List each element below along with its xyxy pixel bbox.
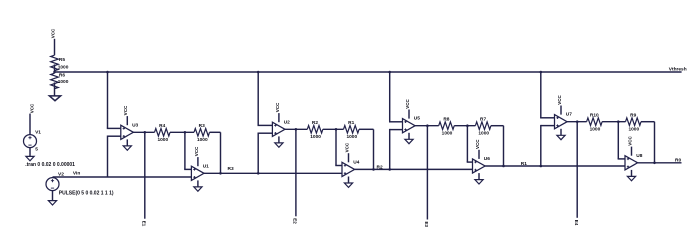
comparator U8 <box>625 136 643 181</box>
wire R5 to R6 <box>54 64 56 73</box>
comparator U6 <box>473 139 491 184</box>
wire <box>359 128 374 130</box>
svg-text:R9: R9 <box>630 113 636 119</box>
svg-text:VCC: VCC <box>557 94 562 104</box>
svg-text:U6: U6 <box>484 156 490 162</box>
stage 4 <box>540 71 543 74</box>
svg-text:E2: E2 <box>293 218 298 224</box>
svg-text:U4: U4 <box>353 159 359 165</box>
svg-text:R5: R5 <box>59 57 65 63</box>
wire to U8 +input <box>617 122 619 159</box>
svg-text:1000: 1000 <box>58 79 69 85</box>
wire U5 output <box>415 125 439 127</box>
stage 3 <box>388 71 391 74</box>
wire output net R2 <box>355 168 473 170</box>
svg-text:VCC: VCC <box>627 136 632 146</box>
node Vthresh junction <box>53 71 56 74</box>
svg-text:1000: 1000 <box>58 65 69 71</box>
svg-text:1000: 1000 <box>628 126 639 132</box>
svg-text:R3: R3 <box>228 166 234 172</box>
wire stub node E1 <box>144 132 146 218</box>
svg-text:1000: 1000 <box>197 137 208 143</box>
svg-text:U1: U1 <box>203 163 209 169</box>
wire to U4 +input <box>335 129 337 165</box>
svg-text:R1: R1 <box>521 161 527 167</box>
wire <box>170 131 194 133</box>
resistor R7 <box>475 122 491 130</box>
wire bus drop stage 3 <box>389 72 391 122</box>
comparator U7 <box>555 94 573 139</box>
wire <box>491 125 504 127</box>
svg-text:Vin: Vin <box>73 171 80 177</box>
wire output net R0 <box>638 162 682 164</box>
wire <box>323 128 344 130</box>
wire feedback R1 <box>373 129 375 169</box>
svg-text:VCC: VCC <box>275 102 280 112</box>
wire feedback R7 <box>503 126 505 166</box>
wire <box>641 121 655 123</box>
wire to U1 +input <box>184 132 186 169</box>
comparator U4 <box>342 142 360 187</box>
wire Vin <box>52 176 54 179</box>
svg-text:Vthresh: Vthresh <box>669 66 687 72</box>
wire U2 output <box>285 128 307 130</box>
wire stub node E3 <box>426 126 428 220</box>
ground (V1) <box>26 156 34 160</box>
svg-text:1000: 1000 <box>478 130 489 136</box>
svg-text:U7: U7 <box>566 112 572 118</box>
resistor R9 <box>626 118 641 126</box>
svg-text:VCC: VCC <box>194 146 199 156</box>
svg-text:R1: R1 <box>348 120 354 126</box>
svg-text:PULSE(0 5 0 0.02 1 1 1): PULSE(0 5 0 0.02 1 1 1) <box>59 190 114 196</box>
resistor R1 <box>344 126 360 134</box>
wire R6 to ground <box>54 82 56 95</box>
resistor R10 <box>587 118 602 126</box>
wire stub node E2 <box>295 129 297 216</box>
wire output net R1 <box>485 165 625 167</box>
svg-text:1000: 1000 <box>442 130 453 136</box>
wire U7 -input <box>541 125 555 127</box>
wire V2 to ground <box>52 191 54 201</box>
resistor R2 <box>307 126 323 134</box>
svg-text:E3: E3 <box>424 222 429 228</box>
resistor R4 <box>155 129 171 137</box>
svg-text:R6: R6 <box>59 72 65 78</box>
svg-text:R2: R2 <box>377 164 383 170</box>
wire U2 -input <box>258 132 272 134</box>
wire U5 -input <box>390 129 403 131</box>
wire U3 -input <box>108 135 121 137</box>
svg-text:U8: U8 <box>636 153 642 159</box>
comparator U2 <box>272 102 290 147</box>
svg-text:U3: U3 <box>132 122 138 128</box>
svg-text:VCC: VCC <box>50 28 55 38</box>
resistor R8 <box>439 122 455 130</box>
wire VCC to V1 <box>29 114 31 135</box>
svg-text:E1: E1 <box>141 221 146 227</box>
svg-text:VCC: VCC <box>344 142 349 152</box>
stage 2 <box>257 71 260 74</box>
svg-text:E4: E4 <box>574 220 579 226</box>
wire stub node E4 <box>576 122 578 218</box>
svg-text:R7: R7 <box>480 117 486 123</box>
ground (divider) <box>49 96 60 101</box>
svg-text:VCC: VCC <box>123 105 128 115</box>
wire bus drop stage 2 <box>257 72 259 125</box>
svg-text:VCC: VCC <box>405 98 410 108</box>
stage 1 <box>106 71 109 74</box>
svg-text:1000: 1000 <box>590 126 601 132</box>
wire feedback R3 <box>220 132 222 173</box>
wire U3 output <box>133 131 154 133</box>
svg-text:1000: 1000 <box>346 134 357 140</box>
svg-text:5: 5 <box>35 146 38 152</box>
wire feedback R9 <box>654 122 656 163</box>
svg-text:1000: 1000 <box>310 134 321 140</box>
wire VCC to R5 <box>54 39 56 55</box>
resistor R5 <box>51 55 59 70</box>
comparator U3 <box>121 105 139 150</box>
wire output net R3 <box>204 172 342 174</box>
svg-text:U5: U5 <box>414 116 420 122</box>
ground (V2) <box>48 201 56 205</box>
wire bus drop stage 1 <box>107 72 109 128</box>
svg-text:R0: R0 <box>675 158 681 164</box>
svg-text:R10: R10 <box>590 113 599 119</box>
svg-text:R3: R3 <box>199 123 205 129</box>
voltage source V1 <box>24 130 42 148</box>
wire <box>602 121 625 123</box>
svg-text:VCC: VCC <box>475 139 480 149</box>
comparator U5 <box>403 98 421 143</box>
svg-text:R4: R4 <box>159 123 165 129</box>
wire V1 to ground <box>29 148 31 157</box>
voltage source V2 <box>46 171 64 190</box>
wire Vthresh bus <box>55 71 682 73</box>
svg-text:R2: R2 <box>312 120 318 126</box>
wire to U6 +input <box>466 126 468 162</box>
wire bus drop stage 4 <box>540 72 542 118</box>
svg-text:1000: 1000 <box>157 137 168 143</box>
svg-text:.tran 0 0.02 0 0.00001: .tran 0 0.02 0 0.00001 <box>25 162 75 168</box>
svg-text:VCC: VCC <box>30 103 35 113</box>
svg-text:V1: V1 <box>35 130 41 136</box>
svg-text:R8: R8 <box>443 117 449 123</box>
resistor R6 <box>51 73 59 88</box>
resistor R3 <box>194 129 210 137</box>
wire <box>210 131 221 133</box>
svg-text:U2: U2 <box>284 119 290 125</box>
wire <box>454 125 475 127</box>
wire U7 output <box>567 121 587 123</box>
comparator U1 <box>191 146 209 191</box>
